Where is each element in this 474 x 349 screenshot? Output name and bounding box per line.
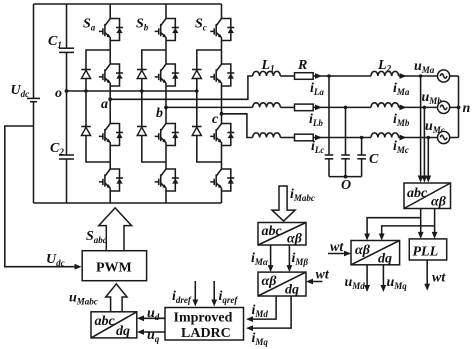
svg-text:iMq: iMq [252,331,269,347]
igbt Sc3 [210,124,234,146]
svg-text:ud: ud [147,306,160,322]
grid source uMc [438,131,450,143]
wire top dc rail [34,3,222,5]
clamp diode a lower [81,127,91,136]
svg-text:abc: abc [262,224,283,239]
arrow ualpha into ab-dq [364,234,370,241]
svg-text:C1: C1 [48,34,62,50]
svg-text:uMa: uMa [414,59,435,75]
arrow into abc-ab block c [425,176,431,183]
svg-text:wt: wt [330,240,344,255]
wire leg a vertical [109,4,111,203]
block alphabeta-dq left U4 [258,272,306,297]
wire uq [140,331,165,333]
block abc-alphabeta left U3 [258,223,306,247]
wire Udc feedback [5,126,78,267]
svg-text:Sc: Sc [195,17,207,33]
wire iMd out [249,296,276,319]
svg-text:iMβ: iMβ [292,251,309,267]
junction voltage sense c [427,136,431,140]
svg-text:b: b [156,106,163,121]
igbt Sc2 [210,64,234,86]
wire c L2 to source [399,137,438,139]
wire c L1 to R [280,137,294,139]
arrow PLL wt out [424,284,430,291]
igbt Sa1 [99,19,123,41]
node c [220,112,224,116]
wire uMq out [382,265,384,289]
arrow ubeta into ab-dq [379,234,385,241]
svg-text:αβ: αβ [287,232,303,247]
svg-text:idref: idref [172,289,192,305]
svg-text:αβ: αβ [355,243,371,258]
svg-text:c: c [212,112,219,127]
wire iMbeta [288,245,290,269]
svg-text:LADRC: LADRC [181,326,231,341]
wire cap branch a [328,76,330,155]
capacitor C2 [59,91,74,203]
block Improved LADRC [165,308,244,342]
clamp diode b upper [137,70,147,79]
inductor L1 phase b [253,103,281,108]
svg-text:a: a [101,97,108,112]
clamp diode c lower [192,127,202,136]
wire ubeta branch to ab-dq [382,226,435,238]
wire voltage sense c [427,138,429,180]
current arrow iLc [315,135,322,141]
svg-text:dq: dq [378,252,392,267]
junction cap branch a [327,74,331,78]
arrow iMq into LADRC [246,325,253,331]
wire a L2 to source [399,75,438,77]
block alphabeta-dq right U2 [351,241,400,267]
svg-text:n: n [463,101,471,116]
svg-text:PWM: PWM [96,261,132,276]
resistor R phase c [295,134,314,141]
junction voltage sense b [423,106,427,110]
hollow arrow Sabc [99,208,132,251]
current arrow iMa [400,73,407,79]
wire ualpha to PLL [420,209,422,236]
wire iMq out [249,296,291,328]
current arrow iLb [315,105,322,111]
svg-text:o: o [55,86,62,101]
wire c R to L2 [313,137,371,139]
igbt Sb1 [155,19,179,41]
battery Udc [27,98,40,101]
svg-text:iqref: iqref [219,289,239,305]
svg-text:Sb: Sb [136,17,149,33]
inductor L1 phase c [253,133,281,138]
svg-text:iMα: iMα [251,251,269,267]
svg-text:iMd: iMd [252,303,269,319]
inductor L2 phase c [371,133,399,138]
arrow iMd into LADRC [246,316,253,322]
igbt Sa4 [99,169,123,191]
svg-text:L1: L1 [261,58,275,74]
wire cap common [329,176,362,178]
arrow ubeta into PLL [432,232,438,239]
wire left dc vertical upper [33,4,35,98]
svg-text:Udc: Udc [11,83,30,99]
resistor R phase b [295,104,314,111]
inductor L2 phase a [371,71,399,76]
svg-text:Sa: Sa [83,17,96,33]
wire b L2 to source [399,106,438,108]
wire ud [140,317,165,319]
svg-text:Sabc: Sabc [86,229,107,245]
svg-text:Improved: Improved [174,311,233,326]
svg-text:Udc: Udc [46,252,65,268]
svg-text:uMd: uMd [345,275,366,291]
node n junction [457,106,461,110]
wire voltage sense a [420,76,422,180]
arrow uMd out [364,285,370,292]
hollow arrow uMabc [106,284,127,312]
junction clamp b on o line [140,89,144,93]
wire phase c to filter [222,114,253,138]
resistor R phase a [295,73,314,80]
svg-text:uMq: uMq [387,275,408,291]
wire uMd out [366,265,368,289]
wire a R to L2 [313,75,371,77]
arrow wt into U4 [306,279,313,285]
capacitor Ca [325,155,334,177]
arrow into abc-ab block b [422,176,428,183]
wire iqref [213,281,215,304]
arrow ualpha into PLL [418,232,424,239]
node a [108,97,112,101]
svg-text:uq: uq [147,328,160,344]
igbt Sb2 [155,64,179,86]
wire voltage sense b [423,107,425,179]
svg-text:iMc: iMc [393,139,409,155]
arrow ud into abc-dq [137,315,144,321]
arrow iqref [211,300,217,307]
block abc-dq U5 [91,312,137,339]
wire clamp chain b [142,50,166,162]
wire a L1 to R [280,75,294,77]
wire cap branch b [345,107,347,155]
capacitor Cc [357,155,366,177]
wire b R to L2 [313,106,371,108]
wire phase a to filter [110,76,253,99]
svg-text:iMb: iMb [393,112,410,128]
inductor L1 phase a [253,71,281,76]
wire left dc vertical lower [33,102,35,203]
igbt Sc1 [210,19,234,41]
svg-text:R: R [297,58,307,73]
arrow idref [192,300,198,307]
wire source b to n [450,106,459,108]
svg-text:abc: abc [407,186,428,201]
svg-text:C: C [369,152,379,167]
wire iMalpha [270,245,272,269]
svg-text:wt: wt [316,268,330,283]
junction clamp c on o line [195,89,199,93]
wire n vertical [458,76,460,138]
junction cap branch b [344,106,348,110]
svg-text:iMabc: iMabc [290,187,315,203]
igbt Sb3 [155,124,179,146]
arrow uq into abc-dq [137,329,144,335]
wire source a to n [450,75,459,77]
wire PLL output wt [426,260,428,288]
svg-text:O: O [341,178,351,193]
wire wt into U4 [309,281,322,283]
igbt Sa2 [99,64,123,86]
block abc-alphabeta right U1 [404,183,451,210]
capacitor C1 [59,4,74,91]
hollow arrow iMabc [272,186,295,221]
svg-text:C2: C2 [50,141,64,157]
arrow Udc into PWM [75,264,82,270]
wire cap branch c [361,138,363,156]
wire b L1 to R [280,106,294,108]
wire wt into U2 [328,253,348,255]
svg-text:wt: wt [432,271,446,286]
block PWM [82,251,146,281]
svg-text:abc: abc [95,314,116,329]
svg-text:L2: L2 [377,58,392,74]
wire leg b vertical [165,4,167,203]
clamp diode a upper [81,70,91,79]
wire leg c vertical [221,4,223,203]
arrow iMalpha [268,265,274,272]
wire neutral o line [67,90,197,92]
igbt Sb4 [155,169,179,191]
wire ualpha branch to ab-dq [367,218,421,238]
svg-text:iMa: iMa [393,81,410,97]
arrow uMq out [381,285,387,292]
node O [344,175,348,179]
junction cap branch c [360,136,364,140]
igbt Sa3 [99,124,123,146]
wire phase b to filter [166,106,253,108]
arrow iMbeta [287,265,293,272]
wire idref [194,281,196,304]
arrow into abc-ab block a [418,176,424,183]
grid source uMb [438,101,450,113]
wire ubeta to PLL [434,209,436,236]
current arrow iMb [400,105,407,111]
svg-text:αβ: αβ [431,195,447,210]
wire clamp chain a [86,50,110,162]
inductor L2 phase b [371,103,399,108]
block PLL [409,239,446,260]
wire bottom dc rail [34,202,222,204]
svg-text:αβ: αβ [262,274,278,289]
wire source c to n [450,137,459,139]
arrow wt into U2 [344,251,351,257]
svg-text:uMabc: uMabc [69,291,98,307]
junction voltage sense a [419,74,423,78]
svg-text:PLL: PLL [413,245,439,260]
clamp diode c upper [192,70,202,79]
capacitor Cb [341,155,350,177]
svg-text:dq: dq [285,283,299,298]
svg-text:iLa: iLa [310,81,324,97]
node o [65,89,69,93]
grid source uMa [438,70,450,82]
current arrow iMc [400,135,407,141]
current arrow iLa [315,73,322,79]
wire clamp chain c [197,50,222,162]
igbt Sc4 [210,169,234,191]
svg-text:iLb: iLb [309,112,323,128]
junction clamp a on o line [84,89,88,93]
svg-text:dq: dq [116,324,130,339]
svg-text:iLc: iLc [311,139,324,155]
clamp diode b lower [137,127,147,136]
node b [164,106,168,110]
